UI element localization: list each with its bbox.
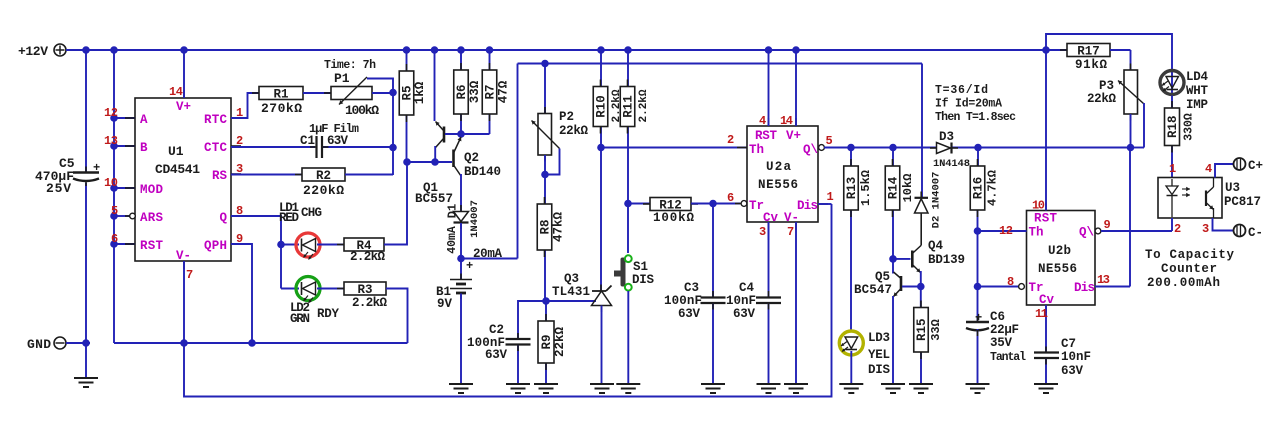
svg-text:U3: U3 (1225, 181, 1240, 195)
svg-text:P1: P1 (334, 71, 350, 86)
ic U2b NE556 (1027, 211, 1096, 306)
pin U2b RST (1032, 50, 1057, 226)
led LD4 (1160, 70, 1208, 112)
ic U1 CD4541 (135, 98, 231, 261)
ground Q5 (881, 384, 905, 393)
svg-text:MOD: MOD (140, 183, 163, 197)
node rail-U1left (110, 46, 118, 54)
label capacity counter (1145, 248, 1234, 290)
ic U1 pin stubs (125, 90, 241, 269)
wire R2 right (345, 174, 393, 176)
svg-text:10: 10 (104, 176, 118, 190)
wire GND stub (66, 342, 90, 344)
cap C7 stems (1045, 347, 1047, 365)
pin numbers U1 right (236, 106, 243, 246)
svg-text:1kΩ: 1kΩ (413, 81, 427, 104)
resistor R9 (538, 301, 567, 383)
node rail-R11 (624, 46, 632, 54)
svg-text:63V: 63V (1061, 364, 1083, 378)
svg-text:Th: Th (1029, 226, 1044, 240)
resistor R2 (295, 168, 352, 198)
wire R4 right (384, 162, 407, 245)
transistor Q5 (854, 259, 919, 383)
svg-text:Time: 7h: Time: 7h (324, 59, 376, 72)
svg-text:C4: C4 (739, 281, 755, 295)
svg-text:+: + (93, 161, 100, 175)
svg-text:C2: C2 (489, 323, 504, 337)
transistor Q1 (415, 50, 453, 206)
resistor R16 (970, 148, 999, 323)
svg-text:3: 3 (759, 225, 766, 239)
node rail-R17 (1042, 46, 1050, 54)
svg-text:A: A (140, 113, 148, 127)
node R6 bottom (457, 130, 465, 138)
svg-text:U1: U1 (168, 144, 184, 159)
node U1 pin13 (110, 142, 118, 150)
svg-text:Q2: Q2 (464, 151, 479, 165)
svg-text:63V: 63V (678, 307, 700, 321)
svg-text:14: 14 (169, 85, 183, 99)
wire Q1 base row (445, 133, 490, 135)
svg-text:1N4148: 1N4148 (933, 158, 970, 170)
battery B1 (436, 259, 473, 384)
label timing formula (935, 84, 1016, 124)
svg-text:CHG: CHG (301, 206, 322, 220)
node R16 top (974, 144, 982, 152)
node C1 join (389, 144, 397, 152)
ic U2b pin stubs (1017, 203, 1108, 314)
wire U2b Qn riser (1129, 148, 1131, 287)
wire Qn net (824, 147, 1130, 149)
cap C2 stems (517, 333, 519, 351)
svg-text:Q5: Q5 (875, 270, 890, 284)
wire P1 right+wiper (367, 79, 393, 94)
svg-text:22kΩ: 22kΩ (559, 124, 588, 138)
svg-text:R3: R3 (357, 283, 372, 297)
svg-text:C-: C- (1248, 226, 1263, 240)
pin U2b Th (978, 224, 1044, 240)
node U1 pin12 (110, 114, 118, 122)
diode D2 (915, 172, 943, 246)
svg-text:47kΩ: 47kΩ (552, 212, 566, 243)
pin U2a Cv (759, 211, 779, 240)
power symbol GND (27, 337, 66, 352)
node R14 top (889, 144, 897, 152)
svg-text:9V: 9V (437, 297, 453, 311)
svg-text:2.2kΩ: 2.2kΩ (352, 296, 387, 310)
svg-text:R15: R15 (915, 318, 929, 341)
resistor R11 (620, 50, 650, 204)
pin U2b Dis (1074, 273, 1130, 295)
node Q4 base (889, 255, 897, 263)
led LD3 (839, 331, 890, 377)
node U1 pin6 (110, 240, 118, 248)
resistor R12 (628, 198, 713, 226)
svg-text:RTC: RTC (204, 113, 227, 127)
capacitor C3 (664, 204, 726, 384)
pin bubble U2a Tr (741, 201, 747, 207)
node Q2 base node (403, 158, 411, 166)
potentiometer P2 (532, 64, 589, 175)
wire R1-P1 (303, 92, 331, 94)
pin U2b Qn (1079, 218, 1172, 240)
svg-text:S1: S1 (633, 260, 648, 274)
node ref node (542, 297, 550, 305)
node Q1 collector join (431, 158, 439, 166)
svg-text:V+: V+ (786, 129, 801, 143)
svg-text:C1: C1 (300, 134, 315, 148)
ground C6 (966, 384, 990, 393)
wire U1 left pins vertical (114, 50, 135, 343)
svg-text:9: 9 (1104, 218, 1111, 232)
svg-text:200.00mAh: 200.00mAh (1147, 276, 1220, 290)
svg-text:63V: 63V (327, 134, 348, 148)
node P3 bottom (1127, 144, 1135, 152)
resistor R5 (399, 50, 427, 162)
node Th node (597, 144, 605, 152)
svg-text:4: 4 (759, 114, 766, 128)
svg-text:C+: C+ (1248, 159, 1263, 173)
resistor R8 (537, 155, 565, 301)
svg-text:IMP: IMP (1186, 98, 1208, 112)
svg-text:C7: C7 (1061, 337, 1076, 351)
wire U3 pin4 (1215, 164, 1233, 178)
svg-text:+: + (975, 311, 982, 325)
wire C5 bottom (85, 183, 87, 377)
pin V+ U1 (169, 50, 191, 114)
transistor Q2 (454, 137, 502, 211)
svg-text:R10: R10 (595, 95, 609, 118)
svg-text:5: 5 (111, 204, 118, 218)
svg-text:10nF: 10nF (1061, 350, 1091, 364)
node U1 pin10 (110, 184, 118, 192)
wire QPH pin9 (231, 244, 252, 343)
ground C4 (757, 384, 781, 393)
potentiometer P1 (324, 71, 379, 118)
svg-text:8: 8 (1007, 275, 1014, 289)
pin U2a Dis (797, 190, 834, 213)
svg-text:13: 13 (104, 134, 118, 148)
svg-text:+: + (466, 259, 473, 273)
ground R9 (534, 384, 558, 393)
svg-text:R18: R18 (1166, 115, 1180, 138)
node rail-Q1e (431, 46, 439, 54)
svg-text:CD4541: CD4541 (155, 162, 200, 177)
power symbol +12V (18, 44, 66, 59)
label Time 7h (324, 59, 376, 72)
ic U2a pin stubs (735, 118, 831, 230)
wire RS to R2 (231, 174, 302, 176)
node LED branch (277, 241, 285, 249)
node rail-V+U1 (180, 46, 188, 54)
pin bubble U1 ARS (130, 213, 136, 219)
svg-text:D2 1N4007: D2 1N4007 (931, 172, 943, 229)
svg-text:NE556: NE556 (1038, 262, 1077, 276)
label 20mA (473, 247, 502, 261)
svg-text:Cv: Cv (1039, 293, 1055, 307)
ground U2a V- (784, 384, 808, 393)
svg-text:330Ω: 330Ω (1183, 113, 1196, 141)
wire C2 bottom (517, 345, 519, 383)
pin U2a V- (784, 211, 799, 383)
led LD1 (279, 201, 322, 260)
cap C5 stems (85, 167, 87, 187)
svg-text:Th: Th (749, 143, 764, 157)
wire C2 branch (518, 301, 546, 338)
svg-text:If Id=20mA: If Id=20mA (935, 98, 1002, 111)
svg-text:V+: V+ (176, 100, 191, 114)
svg-text:Then T=1.8sec: Then T=1.8sec (935, 111, 1016, 124)
wire battery line (518, 64, 923, 198)
svg-text:270kΩ: 270kΩ (261, 101, 302, 116)
svg-text:11: 11 (1035, 307, 1048, 321)
svg-text:7: 7 (186, 268, 193, 282)
svg-text:GRN: GRN (290, 312, 310, 326)
node rail-R7 (486, 46, 494, 54)
svg-text:10nF: 10nF (726, 294, 756, 308)
wire +12V rail (66, 49, 1046, 51)
svg-text:91kΩ: 91kΩ (1075, 58, 1107, 72)
resistor R10 (593, 50, 623, 148)
svg-text:47Ω: 47Ω (497, 80, 511, 103)
svg-text:TL431: TL431 (552, 285, 590, 299)
svg-text:63V: 63V (733, 307, 755, 321)
cap C1 stems (310, 146, 329, 148)
svg-text:C6: C6 (990, 310, 1005, 324)
svg-text:3: 3 (1202, 222, 1209, 236)
resistor R14 (885, 148, 915, 259)
svg-text:V-: V- (176, 249, 191, 263)
svg-text:CTC: CTC (204, 141, 227, 155)
svg-text:YEL: YEL (868, 348, 890, 362)
svg-text:R2: R2 (316, 169, 331, 183)
wire top loop (1046, 34, 1172, 70)
svg-text:+12V: +12V (18, 44, 48, 59)
svg-text:10: 10 (1032, 199, 1045, 213)
pin U2a V+ (780, 50, 801, 143)
svg-text:R13: R13 (845, 177, 859, 200)
wire bottom DIS bus (184, 204, 832, 397)
wire ref to TL431 (546, 300, 596, 302)
wire LD3 bottom (850, 351, 852, 383)
svg-text:R17: R17 (1077, 45, 1100, 59)
svg-text:1: 1 (1169, 162, 1176, 176)
wire osc node vertical (392, 93, 394, 176)
resistor R1 (252, 87, 310, 117)
svg-text:35V: 35V (990, 336, 1012, 350)
svg-text:40mA: 40mA (446, 226, 459, 254)
node P2 wiper (541, 171, 549, 179)
node R12 left (624, 200, 632, 208)
svg-text:13: 13 (1097, 273, 1110, 287)
svg-text:RST: RST (1034, 212, 1057, 226)
svg-text:100nF: 100nF (664, 294, 702, 308)
node rail-C5 (82, 46, 90, 54)
pin U2b Tr (978, 275, 1044, 295)
node rail-R10 (597, 46, 605, 54)
svg-text:U2a: U2a (766, 160, 791, 174)
svg-text:Counter: Counter (1161, 262, 1217, 276)
wire battery node right (461, 258, 518, 260)
node rail-R5 (403, 46, 411, 54)
wire Q2 base (407, 161, 452, 163)
node C3 top (709, 200, 717, 208)
wire to LD1 (281, 244, 299, 246)
svg-text:RS: RS (212, 169, 228, 183)
svg-text:14: 14 (780, 114, 793, 128)
svg-text:P3: P3 (1099, 79, 1114, 93)
diode D3 (930, 130, 970, 170)
svg-text:10kΩ: 10kΩ (901, 174, 915, 203)
wire C5 top (85, 50, 87, 172)
svg-text:T=36/Id: T=36/Id (935, 84, 988, 97)
node rail-R6 (457, 46, 465, 54)
node R13 top (847, 144, 855, 152)
svg-text:22kΩ: 22kΩ (553, 327, 567, 358)
svg-text:63V: 63V (485, 348, 507, 362)
resistor R13 (844, 148, 873, 332)
pin numbers U1 left (104, 106, 118, 246)
svg-text:4.7kΩ: 4.7kΩ (986, 170, 1000, 206)
svg-text:R14: R14 (887, 176, 901, 199)
wire R3 right (386, 289, 408, 344)
svg-text:5: 5 (826, 134, 833, 148)
resistor R18 (1165, 96, 1196, 178)
ground TL431 (590, 384, 614, 393)
transistor Q4 (893, 239, 965, 287)
svg-text:Tantal: Tantal (990, 351, 1026, 364)
ground C5 (74, 378, 98, 387)
capacitor C4 (726, 222, 781, 383)
capacitor C2 (467, 323, 531, 362)
wire S1 bottom (627, 291, 629, 383)
optocoupler U3 PC817 (1158, 178, 1261, 219)
svg-text:LD3: LD3 (868, 331, 890, 345)
svg-text:Q4: Q4 (928, 239, 943, 253)
ground C2 (506, 384, 530, 393)
ground S1 (616, 384, 640, 393)
svg-text:To Capacity: To Capacity (1145, 248, 1234, 262)
wire U3 pin2 (1171, 218, 1173, 231)
svg-text:LD4: LD4 (1186, 70, 1208, 84)
ground C3 (701, 384, 725, 393)
node gnd-QPH (248, 339, 256, 347)
node P2 top (541, 60, 549, 68)
wire C1 right (323, 146, 393, 148)
capacitor C7 (1034, 337, 1091, 383)
wire battery sense riser (517, 64, 519, 259)
node U2b Tr tap (974, 283, 982, 291)
svg-text:RST: RST (140, 239, 163, 253)
wire R11 to S1 (627, 204, 629, 254)
capacitor C6 (966, 310, 1026, 383)
cap C6 stems (977, 316, 979, 336)
svg-text:Cv: Cv (763, 211, 779, 225)
svg-text:C3: C3 (684, 281, 699, 295)
shunt regulator Q3 TL431 (552, 148, 612, 384)
resistor R7 (482, 50, 510, 134)
svg-text:GND: GND (27, 337, 51, 352)
diode D1 (446, 200, 482, 254)
svg-text:12: 12 (104, 106, 118, 120)
node P1 node (389, 89, 397, 97)
wire Th net (601, 147, 747, 149)
svg-text:RDY: RDY (317, 307, 339, 321)
svg-text:DIS: DIS (868, 363, 890, 377)
svg-text:1N4007: 1N4007 (469, 200, 481, 238)
connector C+ (1234, 158, 1264, 173)
svg-text:Tr: Tr (749, 199, 764, 213)
svg-text:6: 6 (111, 232, 118, 246)
pin V- U1 (176, 249, 193, 343)
wire LD1-R4 (317, 244, 344, 246)
svg-text:DIS: DIS (632, 273, 654, 287)
pin U2a Tr label (727, 191, 764, 213)
node U1 pin5 (110, 212, 118, 220)
svg-text:7: 7 (787, 225, 794, 239)
svg-text:100kΩ: 100kΩ (653, 211, 694, 225)
pin names U1 left (140, 113, 163, 253)
svg-text:ARS: ARS (140, 211, 163, 225)
svg-text:12: 12 (999, 224, 1013, 238)
svg-text:R1: R1 (273, 88, 288, 102)
wire U1 pins bottom line (114, 342, 408, 344)
svg-text:BD139: BD139 (928, 253, 965, 267)
resistor R15 (914, 287, 943, 384)
node rail-U2aV+ (792, 46, 800, 54)
node U2b Th tap (974, 227, 982, 235)
resistor R17 (1046, 44, 1131, 73)
ground B1 (449, 384, 473, 393)
ground LD3 (839, 384, 863, 393)
svg-text:V-: V- (784, 211, 799, 225)
svg-text:2: 2 (1174, 222, 1181, 236)
svg-text:RED: RED (279, 211, 299, 225)
capacitor C5 (35, 156, 100, 196)
wire to LD2 (281, 288, 299, 290)
svg-text:33Ω: 33Ω (468, 80, 482, 103)
switch S1 (614, 255, 654, 290)
ground R15 (909, 384, 933, 393)
svg-text:BD140: BD140 (464, 165, 501, 179)
svg-text:4: 4 (1205, 162, 1212, 176)
node gnd-C5 (82, 339, 90, 347)
svg-text:25V: 25V (46, 181, 71, 196)
wire CTC to C1 (231, 146, 315, 148)
svg-text:Q\: Q\ (1079, 226, 1094, 240)
svg-text:U2b: U2b (1048, 244, 1071, 258)
cap C3 stems (712, 291, 714, 310)
connector C- (1234, 225, 1264, 241)
svg-text:Q: Q (219, 211, 227, 225)
svg-text:QPH: QPH (204, 239, 227, 253)
svg-text:R16: R16 (972, 177, 986, 200)
wire U3 pin3 (1213, 218, 1234, 231)
potentiometer P3 (1087, 50, 1144, 148)
svg-text:Dis: Dis (1074, 281, 1095, 295)
node rail-U2aRST (765, 46, 773, 54)
resistor R4 (337, 238, 391, 264)
pin numbers U3 (1169, 162, 1212, 236)
wire LD2-R3 (317, 288, 344, 290)
node battery node (457, 255, 465, 263)
wire R12 to Tr (713, 203, 740, 205)
svg-text:33Ω: 33Ω (929, 319, 943, 341)
pin names U1 right (204, 113, 227, 253)
svg-text:1: 1 (827, 190, 834, 204)
node Q4 emitter (917, 283, 925, 291)
svg-text:22kΩ: 22kΩ (1087, 92, 1116, 106)
